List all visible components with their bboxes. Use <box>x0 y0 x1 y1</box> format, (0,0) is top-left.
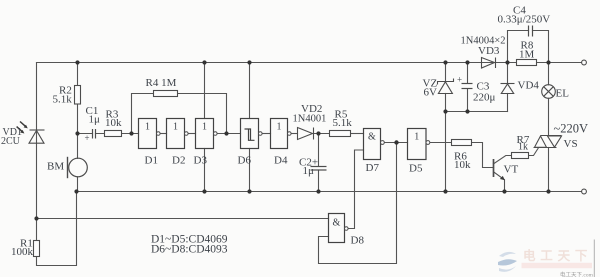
svg-text:VD3: VD3 <box>478 45 500 57</box>
svg-text:1: 1 <box>202 122 207 133</box>
svg-text:&: & <box>368 132 376 143</box>
svg-text:EL: EL <box>556 88 570 100</box>
svg-text:D5: D5 <box>409 163 423 175</box>
svg-text:VT: VT <box>504 164 519 176</box>
svg-text:1: 1 <box>145 122 150 133</box>
svg-text:5.1k: 5.1k <box>333 117 353 129</box>
svg-text:1: 1 <box>414 132 419 143</box>
svg-text:D1: D1 <box>145 155 158 167</box>
svg-text:0.33μ/250V: 0.33μ/250V <box>498 14 551 26</box>
svg-text:VD4: VD4 <box>518 80 540 92</box>
svg-text:1k: 1k <box>518 142 528 153</box>
svg-text:+: + <box>85 133 90 143</box>
svg-text:2CU: 2CU <box>1 136 21 147</box>
svg-text:D7: D7 <box>366 162 380 174</box>
svg-text:1μ: 1μ <box>89 114 101 126</box>
svg-text:6V: 6V <box>424 87 438 99</box>
svg-text:电工天下: 电工天下 <box>523 248 592 263</box>
svg-text:+: + <box>457 75 462 85</box>
svg-text:1μ: 1μ <box>303 165 315 177</box>
svg-text:5.1k: 5.1k <box>53 94 73 106</box>
svg-text:&: & <box>333 218 341 229</box>
svg-text:220μ: 220μ <box>473 92 496 104</box>
svg-text:R4 1M: R4 1M <box>146 77 177 89</box>
svg-text:D6~D8:CD4093: D6~D8:CD4093 <box>151 244 228 256</box>
svg-text:D4: D4 <box>274 155 288 167</box>
svg-text:10k: 10k <box>105 117 122 129</box>
svg-text:100k: 100k <box>11 246 34 258</box>
svg-text:VS: VS <box>564 138 578 150</box>
svg-text:1: 1 <box>277 122 282 133</box>
svg-text:1N4001: 1N4001 <box>293 114 327 125</box>
svg-text:10k: 10k <box>454 159 471 171</box>
svg-text:D3: D3 <box>194 155 208 167</box>
svg-text:1M: 1M <box>519 49 535 61</box>
svg-text:1: 1 <box>173 122 178 133</box>
svg-text:D2: D2 <box>172 155 185 167</box>
svg-text:D6: D6 <box>238 155 252 167</box>
svg-text:D8: D8 <box>351 235 365 247</box>
svg-text:BM: BM <box>47 161 64 173</box>
svg-text:~220V: ~220V <box>554 122 589 136</box>
